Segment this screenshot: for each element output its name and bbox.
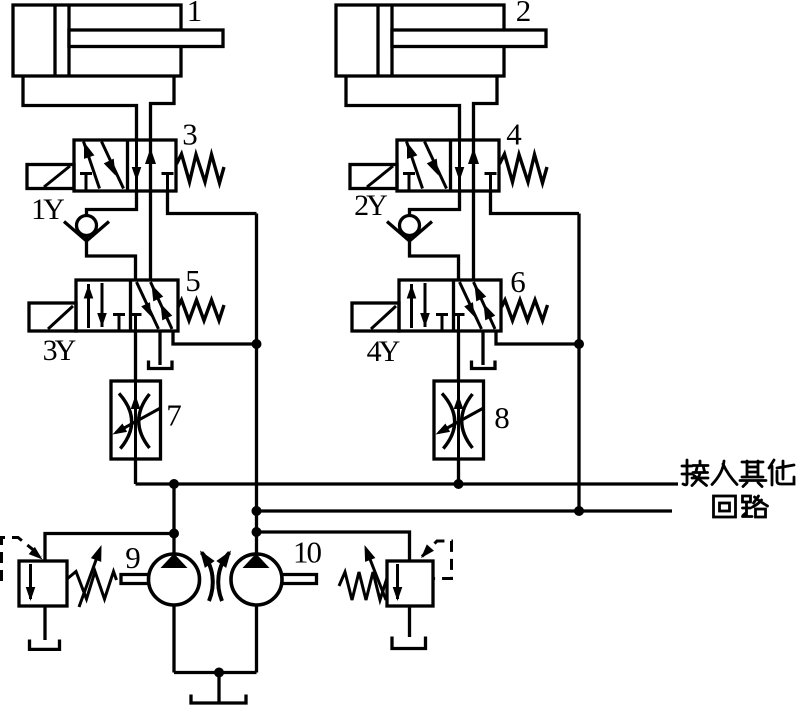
wire check valve 1Y to valve 5 (87, 236, 136, 281)
right relief valve body (387, 561, 433, 606)
valve 5 right position crossed arrows (137, 282, 159, 329)
left relief valve tank (43, 606, 46, 640)
wire cylinder2 left port to valve4 port A (346, 76, 460, 140)
pump 9 riser (172, 484, 175, 554)
right relief valve spring (339, 572, 387, 600)
solenoid 4Y coil of valve 6 (352, 303, 399, 331)
wire cylinder2 right port to valve4 port B (474, 76, 498, 280)
valve 6 right position crossed arrows (460, 282, 482, 329)
left relief valve adjustment arrow (79, 549, 100, 607)
valve 6 left position flow arrows (410, 284, 413, 328)
svg-text:8: 8 (494, 400, 510, 435)
wire cylinder1 right port to valve3 port B (151, 76, 175, 280)
valve 3 body (74, 140, 176, 191)
wire valve3 port A to check valve 1Y (87, 191, 137, 216)
svg-text:3Y: 3Y (43, 334, 76, 367)
left relief valve spring (67, 572, 117, 600)
suction header (174, 671, 257, 674)
junction pump10 riser / manifold line 2 (252, 506, 262, 516)
svg-text:9: 9 (125, 540, 141, 575)
right relief valve tank (408, 606, 411, 637)
valve 4 left position crossed arrows (407, 142, 423, 189)
wire valve4 right port to right drop line (491, 191, 580, 214)
wire check valve 2Y to valve 6 (410, 236, 459, 281)
left relief valve supply wire (45, 534, 174, 562)
left relief valve pilot line (dashed) (2, 538, 42, 582)
pump 10 (231, 554, 282, 605)
manifold line 2 to other circuits (257, 509, 673, 512)
manifold line 1 to other circuits (136, 482, 679, 485)
junction throttle8 / manifold line 1 (454, 479, 464, 489)
valve 4 blocked port T left (403, 174, 415, 191)
throttle valve 8 adjustment arrow (439, 408, 484, 433)
cylinder 1 body (13, 5, 181, 76)
cylinder 2 rod (392, 30, 546, 47)
junction pump10 riser / right relief supply (252, 527, 262, 537)
valve 4 return spring (500, 154, 548, 183)
svg-text:3: 3 (182, 117, 198, 152)
left relief valve internal arrow (29, 564, 32, 599)
valve 5 return spring (178, 300, 224, 321)
cylinder 2 body (336, 5, 504, 76)
glyph 他 (769, 460, 794, 485)
glyph 回 (714, 496, 736, 517)
solenoid 3Y coil of valve 5 (29, 303, 76, 331)
valve 3 blocked port T right (162, 174, 174, 192)
right relief valve adjustment arrow (366, 549, 386, 600)
svg-text:4: 4 (506, 117, 522, 152)
pump 9 outlet down (172, 605, 175, 673)
junction pump9 riser / left relief supply (169, 529, 179, 539)
right relief valve internal arrow (396, 564, 399, 599)
pump 9 drive shaft stub (121, 575, 149, 584)
pump 9 (149, 554, 200, 605)
valve 5 body (76, 280, 178, 331)
throttle valve 7 body (111, 381, 161, 459)
throttle valve 8 body (434, 381, 484, 459)
main tank stem (217, 673, 220, 704)
svg-text:6: 6 (510, 264, 526, 299)
right relief valve supply wire (257, 532, 410, 561)
check valve 2Y (400, 216, 420, 236)
svg-text:7: 7 (166, 398, 182, 433)
svg-text:2: 2 (516, 0, 532, 28)
valve 3 right position flow arrows (135, 140, 138, 191)
throttle valve 8 flow line (457, 381, 460, 459)
svg-text:1Y: 1Y (31, 193, 64, 226)
pump 10 drive shaft stub (282, 575, 317, 584)
wire valve6 to throttle valve 8 (457, 331, 460, 381)
check valve 1Y (77, 216, 97, 236)
valve 4 right position flow arrows (458, 140, 461, 191)
valve 3 blocked port T left (80, 174, 92, 191)
right drop line from valve4 to manifold line 2 (577, 214, 580, 512)
cylinder 2 piston (376, 5, 379, 76)
throttle valve 7 flow line (134, 381, 137, 459)
valve 6 blocked port T symbols (436, 315, 448, 331)
glyph 接 (682, 460, 708, 486)
junction right drop / manifold line 2 (574, 506, 584, 516)
svg-text:2Y: 2Y (354, 189, 387, 222)
svg-text:1: 1 (187, 0, 203, 28)
glyph 路 (743, 496, 753, 517)
valve 4 body (397, 140, 499, 191)
junction valve6 output / right drop line (574, 339, 584, 349)
valve 3 return spring (177, 154, 225, 183)
pump 10 outlet down (255, 605, 258, 673)
throttle valve 7 restriction arcs (119, 393, 132, 448)
junction suction header / tank (214, 668, 224, 678)
left relief valve body (19, 561, 67, 606)
valve 5 blocked port T symbols (113, 315, 125, 331)
glyph 其 (740, 461, 766, 487)
wire valve4 port A to check valve 2Y (410, 191, 460, 216)
cylinder 1 piston (53, 5, 56, 76)
valve 6 exhaust stem (481, 331, 484, 365)
valve 5 exhaust stem (158, 331, 161, 365)
right relief valve pilot line (dashed) (422, 541, 452, 579)
valve 6 body (399, 280, 501, 331)
cylinder 1 rod (69, 30, 223, 47)
svg-text:10: 10 (293, 535, 322, 570)
label 接入其他回路 (connect to other circuits), hand-drawn glyphs (682, 460, 794, 517)
wire valve5 right port to pump10 riser (173, 331, 257, 344)
main tank symbol (191, 695, 246, 704)
valve 5 exhaust tank symbol (149, 361, 173, 369)
wire valve3 right port to pump10 riser (168, 191, 257, 214)
glyph 入 (712, 461, 737, 485)
junction valve5 output / pump10 riser (252, 339, 262, 349)
svg-text:4Y: 4Y (367, 335, 400, 368)
junction pump9 riser / manifold line 1 (169, 479, 179, 489)
wire valve6 right port to right drop line (496, 331, 579, 344)
solenoid 2Y coil of valve 4 (350, 165, 397, 189)
solenoid 1Y coil of valve 3 (27, 165, 74, 189)
valve 6 exhaust tank symbol (472, 361, 496, 369)
valve 5 left position flow arrows (87, 284, 90, 328)
wire valve5 to throttle valve 7 (134, 331, 137, 381)
valve 3 left position crossed arrows (84, 142, 100, 189)
throttle valve 8 restriction arcs (442, 393, 455, 448)
coupling arrows between pump 9 and pump 10 (202, 553, 213, 602)
wire cylinder1 left port to valve3 port A (23, 76, 137, 140)
svg-text:5: 5 (185, 263, 201, 298)
pump 10 riser (255, 214, 258, 555)
throttle valve 7 adjustment arrow (116, 408, 161, 433)
wire throttle7 to manifold line 1 (134, 459, 137, 484)
valve 6 return spring (502, 300, 548, 321)
valve 4 blocked port T right (485, 174, 497, 192)
wire throttle8 to manifold line 1 (457, 459, 460, 484)
